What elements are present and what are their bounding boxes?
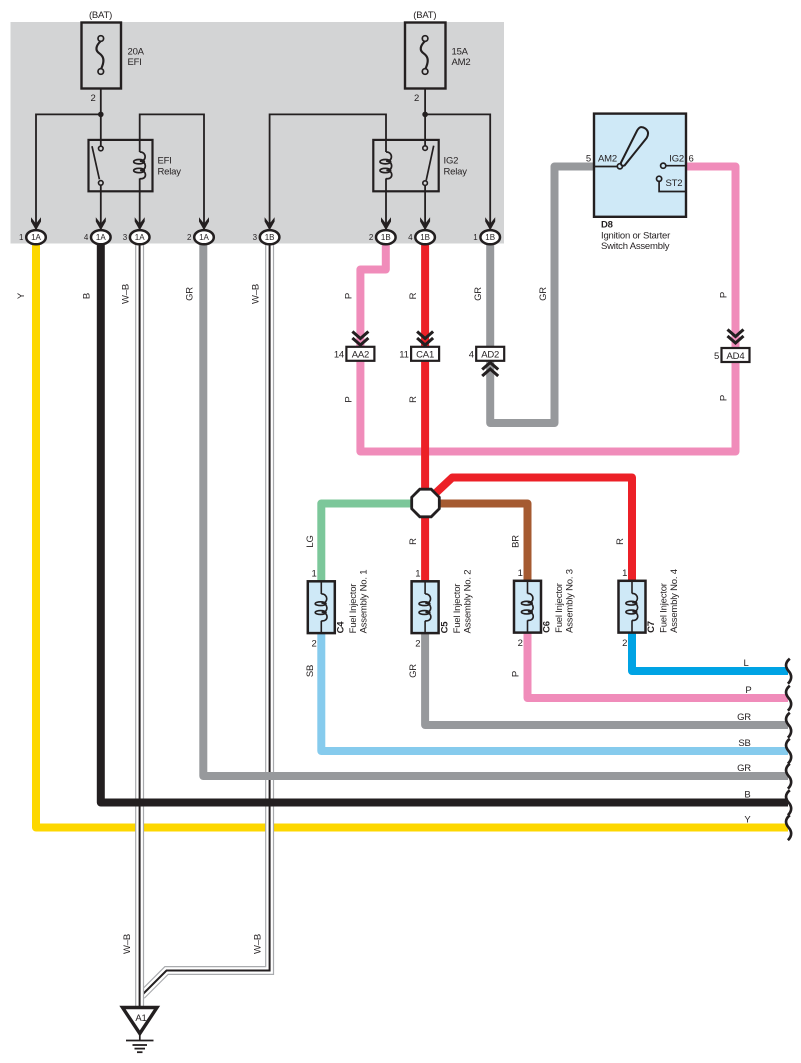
svg-text:2: 2 bbox=[518, 638, 523, 649]
svg-text:R: R bbox=[408, 538, 419, 545]
break symbol GR wire bbox=[786, 713, 791, 738]
svg-text:GR: GR bbox=[737, 712, 751, 723]
wire GR from C5 pin 2 to right edge bbox=[425, 633, 788, 725]
wire EFI relay coil bottom to 3(1A) bbox=[139, 178, 141, 230]
connector oval 1 (1A) bbox=[19, 230, 46, 244]
svg-text:1: 1 bbox=[518, 568, 523, 579]
fuse F1 20A EFI bbox=[82, 23, 122, 89]
svg-text:15A: 15A bbox=[452, 47, 469, 58]
wire P loop 2(1B) through AA2 and AD4 to D8 pin 6 bbox=[360, 167, 735, 452]
connector box CA1 bbox=[399, 347, 439, 361]
svg-text:14: 14 bbox=[334, 350, 344, 361]
junction node dot A bbox=[98, 112, 104, 118]
svg-text:1A: 1A bbox=[96, 233, 106, 242]
fuel injector C7 box bbox=[619, 581, 646, 633]
svg-text:2: 2 bbox=[90, 93, 95, 104]
wire GR from 2(1A) to right edge bbox=[203, 240, 788, 776]
wire R main from 4(1B) through CA1 and junction to C5 pin 1 bbox=[421, 240, 429, 581]
svg-text:AD2: AD2 bbox=[481, 350, 499, 361]
connector box AD4 bbox=[714, 348, 749, 362]
wire BR from junction to C6 pin 1 bbox=[425, 504, 528, 582]
junction node dot B bbox=[422, 112, 428, 118]
wire P from C6 pin 2 to right edge bbox=[528, 633, 789, 699]
svg-text:Assembly No. 1: Assembly No. 1 bbox=[359, 570, 370, 634]
wire IG2 relay coil bottom to 2(1B) bbox=[385, 178, 387, 230]
svg-text:2: 2 bbox=[369, 233, 374, 242]
svg-text:1A: 1A bbox=[199, 233, 209, 242]
svg-text:Assembly No. 2: Assembly No. 2 bbox=[462, 570, 473, 634]
svg-text:W–B: W–B bbox=[251, 284, 262, 304]
svg-text:W–B: W–B bbox=[121, 284, 132, 304]
chevron arrow above AA2 bbox=[352, 332, 368, 346]
svg-text:W–B: W–B bbox=[253, 934, 264, 954]
svg-text:AM2: AM2 bbox=[452, 57, 471, 68]
svg-text:B: B bbox=[744, 790, 750, 801]
svg-text:CA1: CA1 bbox=[416, 350, 434, 361]
D8 ignition switch assembly bbox=[586, 114, 694, 217]
svg-text:R: R bbox=[408, 292, 419, 299]
svg-text:D8: D8 bbox=[601, 220, 613, 231]
svg-text:Ignition or Starter: Ignition or Starter bbox=[601, 231, 670, 242]
wire 3(1B) to IG2 relay coil top bbox=[270, 114, 386, 230]
wire SB from C4 pin 2 to right edge bbox=[321, 633, 788, 751]
arrow into connector 4 (1B) bbox=[420, 217, 430, 230]
arrow into connector 1 (1B) bbox=[485, 217, 495, 230]
wire Y from 1(1A) to right edge bbox=[36, 240, 788, 828]
svg-text:Assembly No. 4: Assembly No. 4 bbox=[669, 569, 680, 633]
svg-text:1B: 1B bbox=[381, 233, 391, 242]
wire GR loop 1(1B) through AD2 to D8 pin 5 bbox=[490, 167, 594, 424]
svg-text:LG: LG bbox=[305, 535, 316, 547]
svg-text:EFI: EFI bbox=[158, 156, 172, 167]
wire R branch from junction to C7 pin 1 bbox=[431, 478, 632, 582]
ground A1 triangle bbox=[123, 1008, 158, 1034]
svg-text:B: B bbox=[82, 293, 93, 299]
wire EFI relay coil top to 2(1A) bbox=[140, 114, 204, 230]
svg-text:AD4: AD4 bbox=[727, 351, 745, 362]
svg-text:GR: GR bbox=[408, 664, 419, 678]
svg-text:EFI: EFI bbox=[128, 57, 142, 68]
svg-text:1: 1 bbox=[622, 568, 627, 579]
wire IG2 relay switch to 4(1B) bbox=[424, 183, 426, 230]
svg-text:1B: 1B bbox=[265, 233, 275, 242]
svg-text:2: 2 bbox=[622, 638, 627, 649]
wire branch to 1(1A) bbox=[36, 114, 101, 230]
svg-text:GR: GR bbox=[538, 287, 549, 301]
svg-text:6: 6 bbox=[689, 154, 694, 165]
ground symbol bbox=[126, 1034, 154, 1053]
svg-text:Y: Y bbox=[16, 292, 27, 299]
svg-text:(BAT): (BAT) bbox=[413, 10, 436, 21]
junction block shaded area bbox=[11, 22, 505, 244]
svg-text:SB: SB bbox=[738, 738, 750, 749]
connector oval 4 (1A) bbox=[84, 230, 111, 244]
svg-text:Fuel Injector: Fuel Injector bbox=[659, 583, 670, 633]
svg-text:1A: 1A bbox=[135, 233, 145, 242]
break symbol Y wire bbox=[786, 815, 791, 840]
fuel injector C5 box bbox=[412, 581, 439, 633]
connector oval 4 (1B) bbox=[408, 230, 435, 244]
svg-text:GR: GR bbox=[473, 287, 484, 301]
svg-text:IG2: IG2 bbox=[669, 154, 684, 165]
wire W-B left from 3(1A) to ground A1 bbox=[135, 240, 144, 1008]
wire fuse F2 to IG2 relay switch bbox=[424, 89, 426, 149]
connector oval 3 (1A) bbox=[123, 230, 150, 244]
svg-text:C4: C4 bbox=[336, 621, 347, 634]
wire W-B right from 3(1B) to ground junction bbox=[142, 240, 270, 996]
svg-text:1: 1 bbox=[415, 569, 420, 580]
chevron arrow above CA1 bbox=[417, 332, 433, 346]
svg-text:1: 1 bbox=[19, 233, 24, 242]
arrow into connector 2 (1A) bbox=[199, 217, 209, 230]
wire LG from junction to C4 pin 1 bbox=[321, 504, 426, 582]
connector oval 2 (1A) bbox=[187, 230, 214, 244]
break symbol B wire bbox=[786, 790, 791, 815]
svg-text:1B: 1B bbox=[420, 233, 430, 242]
fuse F2 15A AM2 bbox=[405, 23, 446, 89]
svg-text:Fuel Injector: Fuel Injector bbox=[452, 584, 463, 634]
break symbol GR2 wire bbox=[786, 764, 791, 789]
arrow into connector 2 (1B) bbox=[381, 217, 391, 230]
svg-text:1: 1 bbox=[473, 233, 478, 242]
connector oval 2 (1B) bbox=[369, 230, 396, 244]
fuel injector C6 box bbox=[514, 581, 541, 633]
svg-text:C5: C5 bbox=[439, 621, 450, 634]
svg-text:BR: BR bbox=[511, 535, 522, 548]
svg-text:1A: 1A bbox=[31, 233, 41, 242]
svg-text:5: 5 bbox=[586, 154, 591, 165]
arrow into connector 1 (1A) bbox=[31, 217, 41, 230]
EFI relay coil bbox=[134, 152, 146, 179]
svg-text:(BAT): (BAT) bbox=[89, 10, 112, 21]
svg-text:P: P bbox=[511, 671, 522, 677]
svg-text:4: 4 bbox=[84, 233, 89, 242]
svg-text:P: P bbox=[344, 293, 355, 299]
break symbol SB wire bbox=[786, 739, 791, 764]
arrow into connector 3 (1A) bbox=[135, 217, 145, 230]
svg-text:L: L bbox=[743, 658, 748, 669]
svg-text:Relay: Relay bbox=[444, 167, 468, 178]
svg-text:AA2: AA2 bbox=[352, 350, 369, 361]
svg-text:GR: GR bbox=[185, 287, 196, 301]
svg-text:A1: A1 bbox=[135, 1013, 146, 1024]
svg-text:Assembly No. 3: Assembly No. 3 bbox=[565, 569, 576, 633]
wire B from 4(1A) to right edge bbox=[101, 240, 788, 803]
connector oval 1 (1B) bbox=[473, 230, 500, 244]
chevron arrow below AD2 pointing up bbox=[482, 363, 498, 377]
splice junction octagon bbox=[412, 489, 440, 517]
svg-text:Relay: Relay bbox=[158, 167, 182, 178]
svg-text:2: 2 bbox=[311, 639, 316, 650]
svg-text:IG2: IG2 bbox=[444, 156, 459, 167]
svg-text:2: 2 bbox=[414, 93, 419, 104]
IG2 relay box bbox=[373, 140, 438, 191]
svg-text:C6: C6 bbox=[542, 621, 553, 633]
svg-text:2: 2 bbox=[415, 639, 420, 650]
connector box AA2 bbox=[334, 347, 375, 361]
svg-text:5: 5 bbox=[714, 351, 719, 362]
IG2 relay coil bbox=[380, 152, 392, 179]
svg-text:2: 2 bbox=[187, 233, 192, 242]
svg-text:W–B: W–B bbox=[122, 934, 133, 954]
arrow into connector 4 (1A) bbox=[96, 217, 106, 230]
svg-text:GR: GR bbox=[737, 763, 751, 774]
svg-text:4: 4 bbox=[408, 233, 413, 242]
EFI relay box bbox=[89, 140, 153, 191]
svg-text:SB: SB bbox=[305, 665, 316, 677]
svg-text:P: P bbox=[719, 292, 730, 298]
wire fuse F1 to EFI relay switch bbox=[100, 89, 102, 149]
svg-text:AM2: AM2 bbox=[598, 154, 617, 165]
connector box AD2 bbox=[469, 347, 504, 361]
svg-text:ST2: ST2 bbox=[666, 178, 683, 189]
svg-text:P: P bbox=[719, 395, 730, 401]
svg-text:1B: 1B bbox=[485, 233, 495, 242]
svg-text:Switch Assembly: Switch Assembly bbox=[601, 241, 670, 252]
svg-text:Fuel Injector: Fuel Injector bbox=[348, 584, 359, 634]
svg-text:11: 11 bbox=[399, 350, 408, 361]
wire branch to 1(1B) bbox=[425, 114, 490, 230]
svg-text:Y: Y bbox=[744, 815, 751, 826]
svg-text:20A: 20A bbox=[128, 47, 145, 58]
svg-text:Fuel Injector: Fuel Injector bbox=[554, 583, 565, 633]
wire EFI relay switch to 4(1A) bbox=[100, 183, 102, 230]
svg-text:R: R bbox=[615, 538, 626, 545]
chevron arrow above AD4 bbox=[728, 330, 744, 344]
svg-text:P: P bbox=[344, 396, 355, 402]
svg-text:C7: C7 bbox=[646, 621, 657, 633]
fuel injector C4 box bbox=[308, 581, 335, 633]
svg-text:P: P bbox=[745, 685, 751, 696]
svg-text:3: 3 bbox=[123, 233, 128, 242]
connector oval 3 (1B) bbox=[253, 230, 280, 244]
arrow into connector 3 (1B) bbox=[265, 217, 275, 230]
svg-text:1: 1 bbox=[311, 569, 316, 580]
wire L from C7 pin 2 to right edge bbox=[632, 633, 788, 672]
svg-text:R: R bbox=[408, 396, 419, 403]
svg-text:3: 3 bbox=[253, 233, 258, 242]
break symbol L wire bbox=[786, 659, 791, 684]
svg-text:4: 4 bbox=[469, 350, 474, 361]
break symbol P wire bbox=[786, 686, 791, 711]
